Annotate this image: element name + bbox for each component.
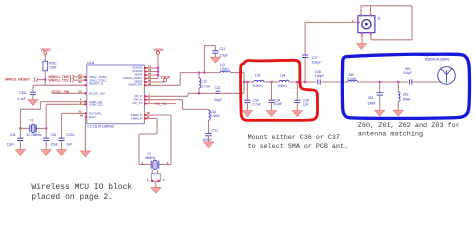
inductor L32 [209,109,221,133]
svg-text:C51: C51 [51,133,57,137]
capacitor C51 [43,128,58,149]
svg-text:35: 35 [78,80,82,84]
inductor Z62 shunt [397,81,410,110]
inductor Z60 [347,73,408,82]
svg-text:X48M_P: X48M_P [131,117,143,121]
capacitor C36 series [315,70,324,85]
inductor L12 [199,73,211,94]
svg-text:Z62: Z62 [403,93,409,97]
svg-text:12pF: 12pF [7,143,15,147]
ground C34 [266,111,276,117]
svg-text:EGP: EGP [89,115,96,119]
capacitor C21 [214,82,244,102]
antenna A1 [425,54,456,85]
off-page connector WMCU_TCK [49,76,87,82]
svg-text:L12: L12 [202,79,208,83]
wire VDDS pin 44 [144,72,159,76]
svg-text:CC1310F128RGZ: CC1310F128RGZ [88,124,115,128]
annotation blue loop [342,54,469,118]
svg-text:VDDR_RF: VDDR_RF [128,82,143,86]
wire VDDS3 pin 45 [144,68,159,72]
svg-text:C231: C231 [66,133,74,137]
capacitor Z61 shunt [368,81,383,110]
ground C51 [41,150,51,156]
svg-text:2.7pF: 2.7pF [252,103,260,107]
crystal Y2 48MHz [139,152,171,169]
wire RX_TX pin 3 [144,100,176,106]
svg-text:L34: L34 [280,73,286,77]
wire X48M_P pin 47 [139,115,157,165]
ground C351 [28,100,38,106]
svg-text:5.6pF: 5.6pF [404,71,412,75]
svg-text:C41: C41 [10,133,16,137]
resistor R351 [43,61,57,85]
svg-text:32.768kHz: 32.768kHz [26,133,42,137]
svg-text:6.2nH: 6.2nH [253,84,262,88]
ground Y2 [151,187,161,193]
inductor L11 [220,63,244,82]
inductor L33 [253,73,264,87]
junction L12 bottom [198,92,200,94]
svg-text:RX_TX: RX_TX [155,102,167,106]
capacitor Z63 series [404,67,441,85]
svg-text:7.5nH: 7.5nH [220,67,229,71]
svg-text:to select SMA or PCB ant.: to select SMA or PCB ant. [248,143,348,151]
wire VDDS2 pin 13 [144,65,158,69]
svg-text:Mount either C36 or C37: Mount either C36 or C37 [248,134,340,142]
power flag VDDS (bus) [153,48,164,79]
off-page connector WMCU_TMS [49,73,87,79]
svg-text:49: 49 [80,113,84,117]
svg-text:VDDR: VDDR [160,75,170,79]
svg-text:0.1uF: 0.1uF [17,97,25,101]
svg-text:Z60, Z61, Z62 and Z63 for: Z60, Z61, Z62 and Z63 for [358,122,460,130]
wire C11 branch [204,46,215,73]
svg-text:RESET_N: RESET_N [89,81,103,85]
wire VDDR_RF pin 46 to bias line [144,73,220,87]
svg-text:C31: C31 [212,129,218,133]
ground Z61 [375,110,385,116]
svg-text:placed on page 2.: placed on page 2. [31,193,113,202]
off-page connector WMCU_RESET [5,77,45,81]
svg-text:2.7nH: 2.7nH [201,84,210,88]
wire X48M_N pin 46 [144,111,171,164]
svg-text:Y1: Y1 [29,119,33,123]
wire X32K_Q1 pin 4 [20,98,86,129]
ground C231 [56,150,66,156]
ground Z62 [393,110,403,116]
capacitor C37 branch to SMA [302,22,358,82]
svg-text:33: 33 [78,89,82,93]
note wireless mcu io block [31,183,132,202]
svg-text:100pF: 100pF [202,138,211,142]
capacitor C11 [212,47,228,57]
wire EGP pin 49 [80,113,87,150]
svg-text:48MHz: 48MHz [145,156,156,160]
note mount either C36 or C37 [248,134,348,151]
capacitor C34 [268,82,282,111]
svg-text:U1A: U1A [87,61,95,65]
capacitor C231 [58,133,74,150]
svg-text:3.9pF: 3.9pF [220,53,228,57]
svg-text:C11: C11 [220,47,226,51]
wire RF_P pin 1 [144,92,216,97]
wire J1 pin2 to ground [361,33,363,44]
ground C33 [242,111,252,117]
svg-text:47: 47 [146,115,150,119]
capacitor C35 [294,82,309,111]
svg-text:46: 46 [148,82,152,86]
capacitor C33 [244,82,260,111]
power flag VDDS (left) [41,48,52,61]
connector J1 SMA [352,9,381,38]
capacitor C351 [17,91,36,101]
ground J1 [356,44,366,50]
svg-text:100k: 100k [49,66,57,70]
svg-text:8.2pF: 8.2pF [274,102,282,106]
svg-text:DCDC_SW: DCDC_SW [89,92,105,96]
net label DCDC_SW wire [52,89,87,94]
svg-text:DNM: DNM [403,98,411,102]
svg-text:C21: C21 [215,86,221,90]
wire X32K_Q2 pin 3 [46,101,87,128]
ground C11 [210,57,220,63]
svg-text:X32K_Q2: X32K_Q2 [89,103,103,107]
svg-text:Z61: Z61 [368,96,374,100]
pin number 35 RESET_N [78,80,82,84]
capacitor C31 [202,129,218,142]
svg-text:Wireless MCU IO block: Wireless MCU IO block [31,183,132,192]
svg-text:C351: C351 [19,91,27,95]
wire DCOUPL pin 23 [62,110,87,139]
svg-text:100pF: 100pF [312,61,321,65]
svg-text:1.5nH: 1.5nH [211,114,220,118]
wire VDDS_DCDC pin 34 [144,67,159,80]
ground C31 [203,142,213,148]
inductor L34 [278,73,289,87]
crystal Y1 32.768kHz [19,119,47,138]
svg-text:1uF: 1uF [66,143,72,147]
svg-text:100pF: 100pF [315,74,324,78]
svg-text:WMCU_RESET: WMCU_RESET [5,77,31,81]
junction reset node [44,79,46,81]
svg-text:J1: J1 [377,17,381,21]
annotation red loop [241,60,318,120]
op IC U1A CC1310 [87,61,145,128]
node L12 top [198,72,200,74]
wire J1 shield loop [361,6,412,40]
svg-text:WMCU_TCK: WMCU_TCK [49,78,70,82]
svg-text:12pF: 12pF [50,143,58,147]
svg-text:868MHz/915MHz: 868MHz/915MHz [425,58,450,62]
ground C35 [292,111,302,117]
svg-text:DNM: DNM [368,102,376,106]
svg-text:L33: L33 [255,73,261,77]
note antenna matching [358,122,460,139]
capacitor C41 [7,128,24,149]
power flag VDDR pin 48 [144,75,170,83]
crystal Y2 ground pad block [147,170,165,188]
wire RESET_N net [33,84,87,91]
ground C41 [15,150,25,156]
wire RF_N pin 2 [144,96,208,110]
main RF line [243,81,348,83]
svg-text:RX_TX: RX_TX [133,101,143,105]
svg-text:1pF: 1pF [303,102,309,106]
svg-text:6.8nH: 6.8nH [278,84,287,88]
svg-text:antenna matching: antenna matching [358,131,423,139]
ground EGP [80,151,90,157]
svg-text:3.6pF: 3.6pF [214,98,222,102]
node C11 branch [203,72,205,74]
